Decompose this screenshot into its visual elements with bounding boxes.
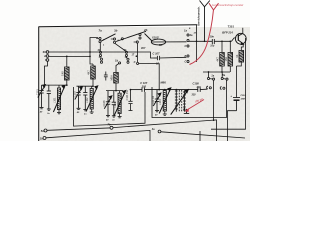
wire switch feed — [90, 38, 98, 65]
svg-text:C: C — [134, 60, 136, 64]
junction — [213, 119, 215, 121]
svg-text:1K0: 1K0 — [61, 71, 65, 76]
variable inductor L102 — [86, 86, 98, 114]
svg-text:C110 4N: C110 4N — [152, 96, 155, 106]
switch contact C2 — [187, 60, 189, 62]
resistor R106 — [228, 53, 233, 67]
capacitor C104 — [83, 86, 87, 111]
switch contact 4b right — [125, 51, 127, 56]
switch wiper 3b — [116, 31, 146, 41]
terminal 1b lower — [43, 137, 46, 140]
switch contact 1a — [187, 34, 189, 36]
svg-text:B: B — [185, 55, 187, 58]
wire — [92, 79, 94, 86]
terminal d — [46, 55, 49, 58]
oscillator section box — [152, 80, 227, 118]
wire — [119, 91, 121, 94]
wire — [228, 111, 237, 141]
svg-text:L104: L104 — [159, 99, 162, 105]
trimmer capacitor C106 — [104, 91, 112, 117]
svg-text:C: C — [185, 61, 187, 64]
svg-text:10n: 10n — [210, 35, 215, 39]
resistor R107 — [239, 51, 244, 63]
junction — [44, 84, 46, 86]
junction — [221, 71, 223, 73]
switch contact C right — [220, 87, 225, 90]
junction — [175, 89, 177, 91]
svg-text:C104 4N7: C104 4N7 — [126, 89, 129, 100]
junction — [164, 89, 166, 91]
frame left border line — [38, 27, 40, 141]
wire from terminal d — [49, 55, 90, 57]
svg-text:15K: 15K — [224, 57, 228, 62]
wire right edge — [211, 38, 246, 129]
wire — [115, 43, 126, 51]
junction — [89, 51, 91, 53]
capacitor C108 — [198, 87, 207, 92]
svg-text:4K7: 4K7 — [216, 56, 220, 61]
svg-text:3b: 3b — [114, 29, 118, 33]
wire — [152, 41, 187, 43]
variable inductor L104 — [159, 88, 171, 116]
junction — [184, 108, 186, 110]
switch wiper 2b — [145, 34, 153, 42]
svg-text:C101: C101 — [37, 89, 40, 96]
junction — [158, 89, 160, 91]
resistor R105 — [220, 53, 225, 67]
wire group3 rail — [106, 90, 123, 92]
switch contact 1b mid — [119, 62, 121, 64]
junction — [89, 56, 91, 58]
oscillator coil L105 — [171, 89, 189, 114]
terminal 30 — [46, 51, 49, 54]
wire long lower — [46, 130, 150, 141]
capacitor C107b — [154, 56, 187, 60]
wire — [236, 66, 238, 98]
wire — [126, 57, 128, 59]
wire — [99, 43, 101, 51]
variable inductor L103 — [114, 90, 126, 117]
switch contact 4a — [187, 39, 189, 41]
wire collector — [242, 28, 244, 34]
switch contact 7a — [99, 37, 101, 42]
svg-text:C108: C108 — [193, 81, 200, 85]
junction — [115, 90, 117, 92]
svg-text:4K7: 4K7 — [140, 47, 146, 50]
switch contact 1a right — [207, 77, 214, 80]
svg-text:X101*: X101* — [151, 35, 160, 39]
switch wiper 7a — [101, 34, 116, 41]
wire contact C to oscillator — [139, 64, 160, 90]
antenna input — [200, 1, 210, 42]
junction small — [136, 55, 138, 57]
svg-text:L103: L103 — [114, 101, 117, 107]
svg-text:L102: L102 — [86, 97, 89, 103]
svg-text:+: + — [230, 94, 232, 98]
switch contact 5a — [221, 77, 228, 80]
svg-text:MF: MF — [159, 43, 163, 47]
trimmer capacitor C101 — [38, 85, 46, 109]
ceramic filter X101 — [151, 39, 165, 45]
junction — [66, 56, 68, 58]
wire — [208, 72, 210, 77]
switch contact 4b — [99, 51, 101, 56]
junction — [92, 85, 94, 87]
terminal 5d — [44, 129, 47, 132]
junction — [130, 89, 132, 91]
trimmer capacitor C103 — [75, 86, 83, 109]
switch contact 2b lower — [136, 41, 138, 43]
wire — [213, 80, 215, 120]
wire — [164, 89, 166, 92]
svg-text:C: C — [185, 45, 187, 48]
wire — [116, 64, 119, 73]
wire long upper continued — [113, 120, 216, 141]
terminal 3a — [158, 130, 161, 133]
wire — [115, 83, 117, 91]
terminal 7b — [110, 126, 113, 129]
svg-text:7a: 7a — [99, 28, 103, 32]
wire — [92, 64, 94, 66]
junction — [196, 40, 198, 42]
transistor T101 — [235, 33, 246, 44]
switch contact 1b — [100, 58, 102, 63]
resistor R104 — [114, 73, 119, 84]
contact stub — [96, 38, 99, 40]
svg-text:2b: 2b — [143, 28, 148, 32]
capacitor C102 — [47, 85, 51, 110]
svg-text:330: 330 — [192, 94, 197, 97]
trimmer capacitor C110 — [153, 90, 161, 112]
svg-text:1b: 1b — [115, 59, 118, 63]
capacitor C104b — [128, 90, 132, 111]
wire bus — [203, 71, 230, 73]
wire group2 rail — [77, 85, 94, 87]
wire long upper — [47, 128, 110, 130]
switch contact — [121, 38, 123, 40]
switch contact C1 — [187, 45, 189, 47]
svg-text:10M: 10M — [241, 98, 245, 100]
switch contact 1b right — [127, 58, 129, 63]
resistor R102 — [65, 67, 70, 80]
resistor R103 — [91, 66, 96, 79]
frame top border line — [39, 25, 198, 27]
wire from terminal 30 — [49, 52, 154, 58]
wire long lower right — [161, 132, 245, 138]
terminal f — [46, 59, 49, 62]
wire — [199, 131, 201, 141]
svg-text:L101: L101 — [53, 97, 56, 103]
capacitor 10n — [189, 38, 236, 44]
annotation arrow (red) — [185, 100, 204, 112]
contact stub — [111, 38, 114, 40]
junction — [221, 40, 223, 42]
ground — [184, 109, 189, 114]
wire — [66, 56, 68, 67]
svg-text:10u: 10u — [210, 46, 215, 48]
switch contact C left — [207, 86, 212, 89]
electrolytic capacitor C112 — [233, 98, 240, 111]
contact stub — [134, 41, 137, 43]
wire — [91, 86, 93, 88]
svg-text:Bereichsumsch.: Bereichsumsch. — [197, 6, 200, 26]
wire 2b to C — [137, 43, 139, 62]
junction — [204, 40, 206, 42]
wire vertical x=196 — [196, 25, 198, 62]
junction — [229, 40, 231, 42]
wire — [229, 66, 231, 72]
wire emitter — [241, 44, 243, 51]
wire group1 rail — [42, 84, 67, 86]
junction — [66, 84, 68, 86]
wire — [58, 85, 60, 88]
wire — [229, 41, 231, 52]
svg-text:C106: C106 — [103, 100, 106, 107]
wire from terminal f — [45, 61, 48, 85]
switch contact B — [187, 55, 189, 57]
wire — [221, 72, 223, 77]
wire — [66, 80, 68, 85]
svg-text:4K7: 4K7 — [87, 70, 91, 75]
capacitor C105 — [104, 72, 108, 81]
FM section box — [74, 87, 146, 126]
variable inductor L101 — [53, 85, 65, 114]
switch contact 2b — [139, 33, 141, 39]
switch contact 3b — [113, 38, 115, 43]
wire — [221, 66, 223, 72]
junction — [208, 71, 210, 73]
svg-text:C103: C103 — [74, 91, 77, 98]
wire — [221, 41, 223, 52]
svg-text:1E: 1E — [156, 63, 159, 66]
wire — [237, 62, 242, 66]
capacitor C107 — [131, 87, 198, 92]
antenna symbol (red) — [190, 3, 219, 64]
svg-text:T101: T101 — [228, 24, 235, 28]
switch contact C — [137, 62, 139, 64]
capacitor C107a — [112, 91, 116, 118]
svg-text:1K: 1K — [235, 54, 239, 57]
svg-text:BFP 214: BFP 214 — [222, 30, 233, 34]
svg-text:C 107: C 107 — [153, 52, 160, 56]
svg-text:M5A: M5A — [110, 75, 114, 81]
